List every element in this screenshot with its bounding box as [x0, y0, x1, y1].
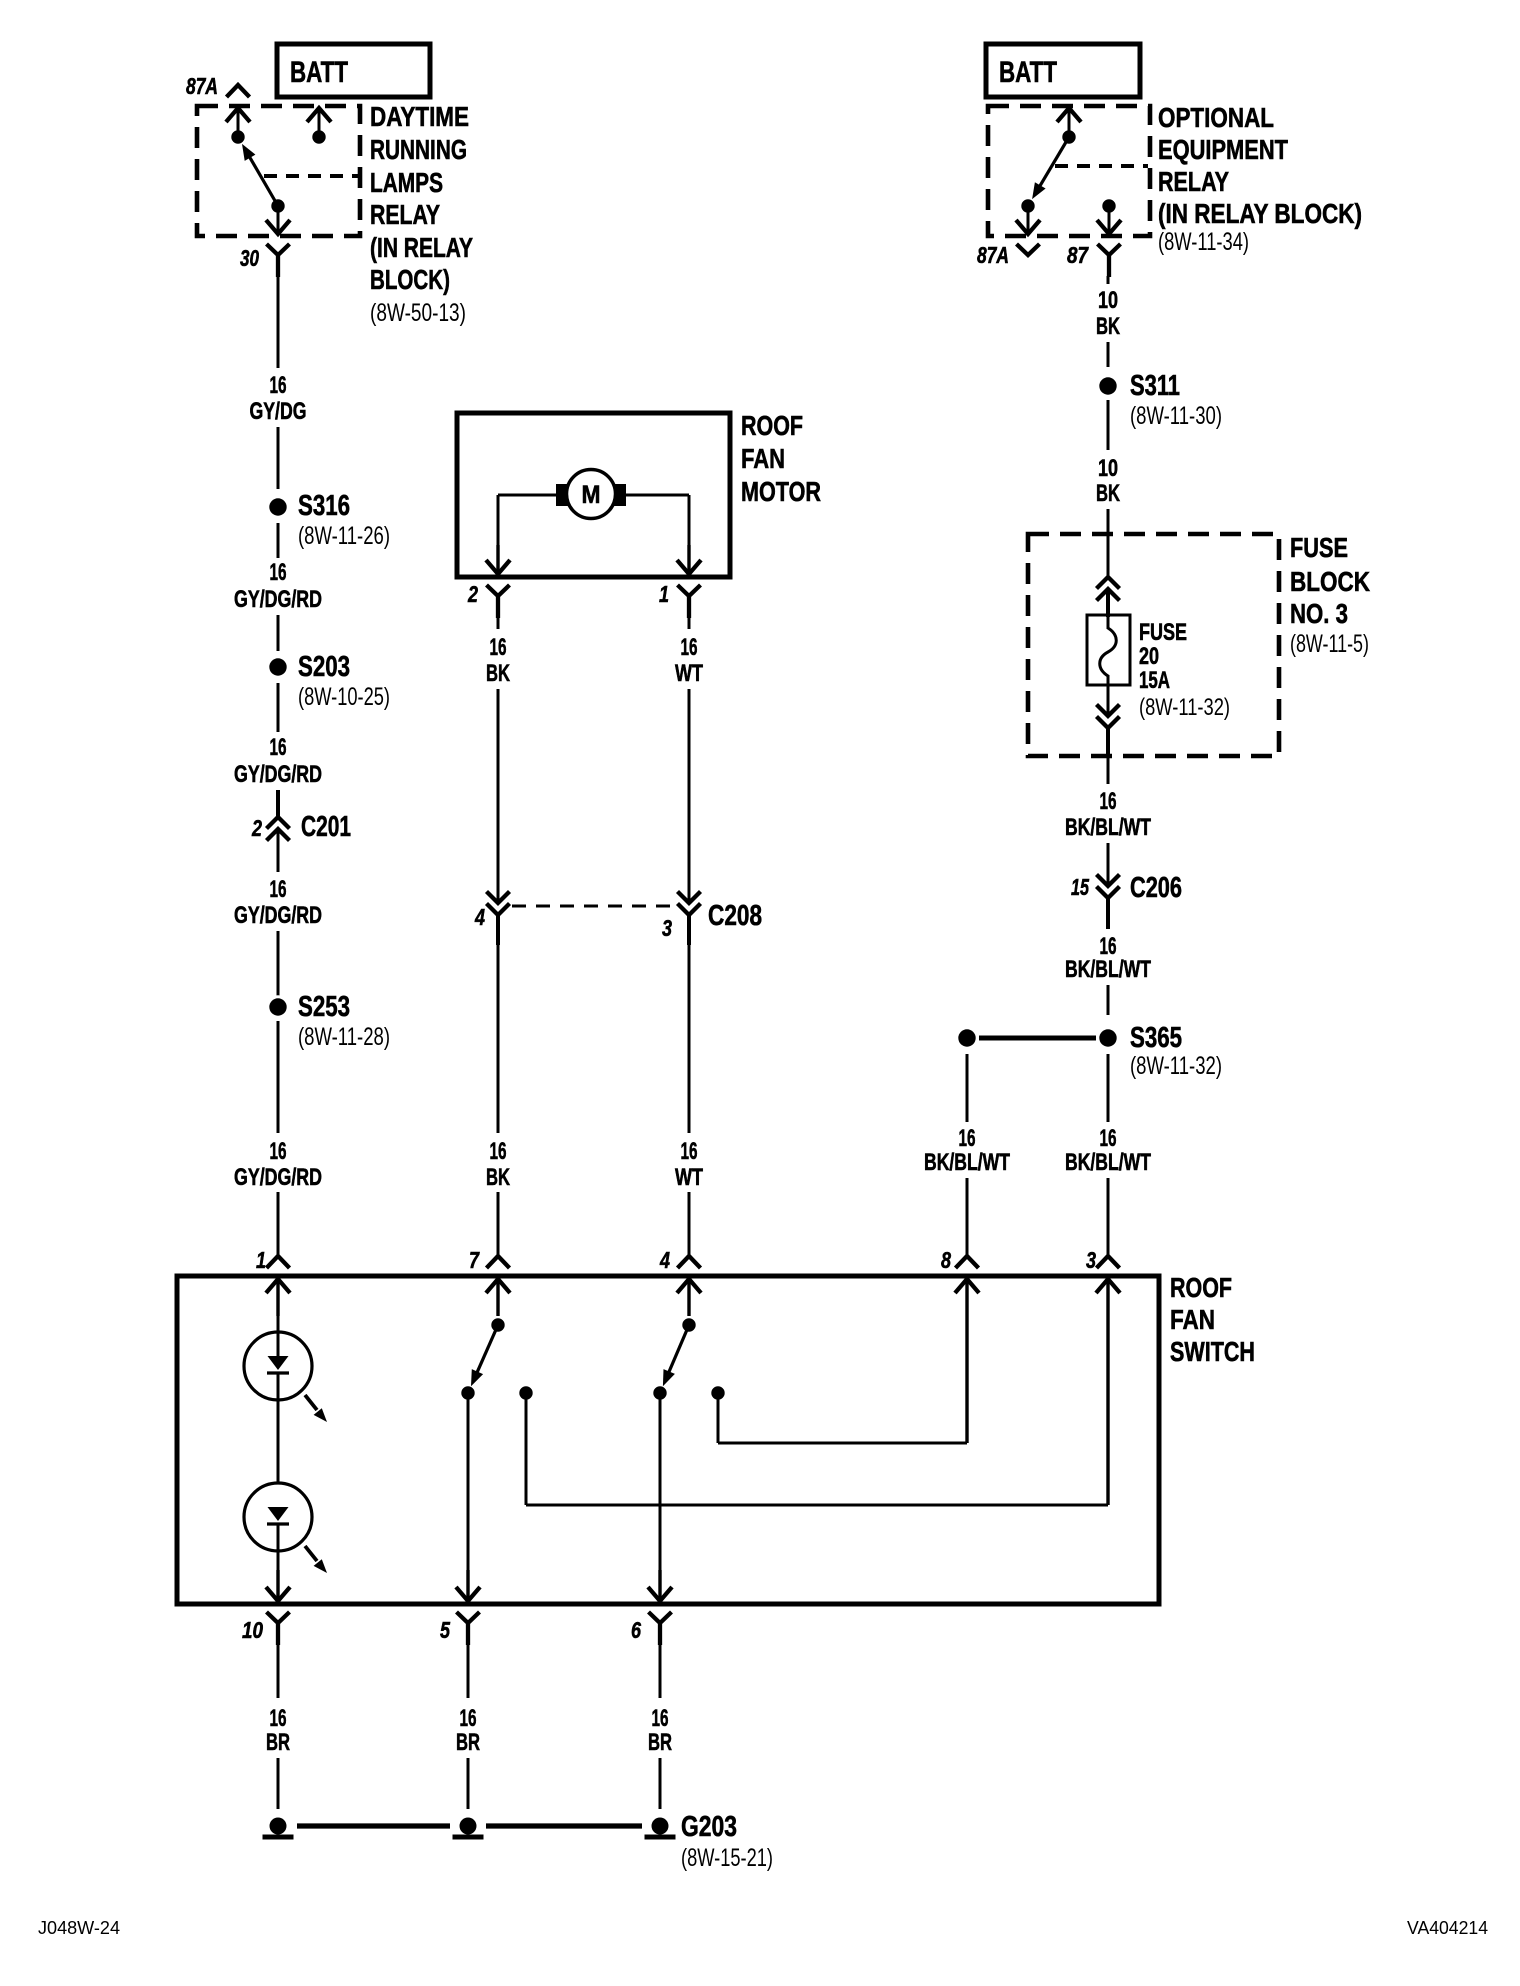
- svg-text:3: 3: [1086, 1247, 1096, 1273]
- wire out of fuse block (16 BK/BL/WT): [1106, 728, 1110, 758]
- svg-text:C208: C208: [708, 900, 762, 932]
- svg-text:(8W-15-21): (8W-15-21): [681, 1844, 773, 1872]
- wire: [276, 790, 280, 817]
- svg-text:OPTIONAL: OPTIONAL: [1158, 102, 1274, 133]
- wire: throw contact down to pin 5: [467, 1393, 470, 1570]
- svg-text:4: 4: [474, 904, 485, 930]
- pin 87A terminal arrow: [1027, 206, 1030, 232]
- relay fixed contact (battery side): [312, 130, 325, 143]
- wire: [1107, 685, 1110, 716]
- wire: pin 1 to illumination LEDs: [276, 1279, 279, 1316]
- pin 7 connector half (above switch box): [487, 1256, 510, 1268]
- svg-text:15: 15: [1071, 874, 1090, 900]
- pin 6 terminal arrow (switch bottom): [648, 1587, 672, 1601]
- svg-text:DAYTIME: DAYTIME: [370, 101, 469, 132]
- svg-text:1: 1: [256, 1247, 266, 1273]
- svg-text:3: 3: [662, 915, 672, 941]
- connector (double chevron) into fuse block: [1097, 577, 1120, 589]
- relay fixed contact 87A: [231, 130, 244, 143]
- svg-text:16: 16: [270, 1705, 287, 1732]
- pin 4 terminal arrow: [677, 1279, 701, 1293]
- wire (left branch of S365, 16 BK/BL/WT): [966, 1054, 969, 1122]
- wire: contact down and across to pin 3: [525, 1393, 528, 1505]
- wire: [277, 615, 280, 651]
- splice S316: [266, 495, 289, 518]
- svg-text:16: 16: [270, 876, 287, 903]
- svg-text:M: M: [582, 481, 601, 509]
- switch pole A blade with arrowhead: [474, 1325, 498, 1380]
- connector C208 pin 4 (double chevron): [487, 892, 510, 904]
- svg-text:BLOCK): BLOCK): [370, 264, 450, 295]
- connector half below pin 1: [678, 585, 701, 618]
- node BATT (left battery feed): [277, 44, 430, 97]
- svg-text:MOTOR: MOTOR: [741, 476, 821, 507]
- wire: [277, 1192, 280, 1256]
- pin 87A terminal arrow: [226, 108, 250, 122]
- svg-text:GY/DG/RD: GY/DG/RD: [234, 761, 322, 788]
- svg-text:(8W-11-32): (8W-11-32): [1139, 694, 1230, 721]
- svg-text:S316: S316: [298, 490, 350, 522]
- connector (double chevron) out of fuse block: [1097, 705, 1120, 717]
- svg-text:J048W-24: J048W-24: [38, 1918, 120, 1938]
- splice S365 (tie bar to left branch): [979, 1036, 1096, 1041]
- svg-text:BK/BL/WT: BK/BL/WT: [924, 1149, 1010, 1176]
- pin 5 terminal arrow (switch bottom): [456, 1587, 480, 1601]
- relay common contact: [1062, 130, 1075, 143]
- connector half below pin 30: [267, 244, 290, 277]
- wire: relay pin 87 down (10 BK): [1107, 276, 1110, 284]
- svg-text:16: 16: [1100, 1125, 1117, 1152]
- svg-text:ROOF: ROOF: [1170, 1272, 1232, 1303]
- svg-text:FAN: FAN: [741, 443, 785, 474]
- wire: [277, 829, 280, 872]
- relay battery-side terminal arrow: [307, 108, 331, 122]
- svg-text:(8W-10-25): (8W-10-25): [298, 683, 390, 711]
- svg-text:4: 4: [659, 1247, 670, 1273]
- connector C208 pin 3 (double chevron): [678, 892, 701, 904]
- svg-text:LAMPS: LAMPS: [370, 167, 443, 198]
- relay contact 87: [1102, 199, 1115, 212]
- switch ROOF FAN SWITCH (box): [177, 1276, 1159, 1604]
- pin 87 terminal arrow: [1108, 206, 1111, 232]
- switch pole B: contact from pin 4: [687, 1279, 690, 1316]
- svg-text:BK/BL/WT: BK/BL/WT: [1065, 1149, 1151, 1176]
- svg-text:BLOCK: BLOCK: [1290, 566, 1370, 597]
- pin 10 connector half (below switch box): [267, 1612, 290, 1645]
- relay battery-side terminal arrow: [1057, 108, 1081, 122]
- svg-text:FUSE: FUSE: [1290, 532, 1348, 563]
- wire: [277, 1021, 280, 1133]
- wire: pin 1 down (16 WT): [688, 617, 691, 629]
- switch pole B throw contact (to pin 6): [653, 1386, 666, 1399]
- wire: motor right lead: [626, 494, 689, 497]
- wire: relay pin 30 down (16 GY/DG): [277, 276, 280, 368]
- svg-text:RUNNING: RUNNING: [370, 134, 467, 165]
- pin 5 connector half (below switch box): [457, 1612, 480, 1645]
- svg-text:S203: S203: [298, 651, 350, 683]
- wire: [1107, 400, 1110, 450]
- svg-text:S311: S311: [1130, 370, 1180, 402]
- svg-text:C201: C201: [301, 811, 351, 843]
- svg-text:16: 16: [490, 634, 507, 661]
- wire: [1107, 843, 1110, 886]
- splice S253: [266, 995, 289, 1018]
- svg-text:5: 5: [440, 1617, 451, 1643]
- wire: [1106, 589, 1110, 617]
- connector C201 (pin 2): [267, 817, 290, 829]
- svg-text:(8W-11-28): (8W-11-28): [298, 1023, 390, 1051]
- svg-text:GY/DG/RD: GY/DG/RD: [234, 1164, 322, 1191]
- svg-text:16: 16: [681, 634, 698, 661]
- svg-text:BK: BK: [486, 1164, 510, 1191]
- svg-text:BK/BL/WT: BK/BL/WT: [1065, 956, 1151, 983]
- wire: pin 6 to ground (16 BR): [659, 1644, 662, 1698]
- wire: [277, 683, 280, 732]
- svg-text:WT: WT: [675, 1164, 703, 1191]
- svg-text:WT: WT: [675, 660, 703, 687]
- connector C206 (pin 15): [1097, 875, 1120, 887]
- wire into fuse block: [1107, 509, 1110, 577]
- fuse block FUSE BLOCK NO. 3 (dashed box): [1028, 534, 1279, 756]
- svg-text:16: 16: [1100, 788, 1117, 815]
- pin 2 terminal arrow: [486, 560, 510, 574]
- wire: [966, 1178, 969, 1256]
- svg-text:16: 16: [270, 372, 287, 399]
- svg-text:BK: BK: [486, 660, 510, 687]
- pin 1 connector half (above switch box): [267, 1256, 290, 1268]
- pin 7 terminal arrow: [486, 1279, 510, 1293]
- svg-text:(8W-50-13): (8W-50-13): [370, 299, 466, 327]
- svg-text:6: 6: [631, 1617, 641, 1643]
- pin 30 terminal arrow: [277, 206, 280, 232]
- svg-text:FUSE: FUSE: [1139, 619, 1187, 646]
- svg-text:87: 87: [1067, 242, 1089, 268]
- svg-text:(8W-11-26): (8W-11-26): [298, 522, 390, 550]
- svg-text:RELAY: RELAY: [1158, 166, 1229, 197]
- relay coil bar (dashed): [1055, 164, 1148, 168]
- svg-text:16: 16: [681, 1138, 698, 1165]
- relay DAYTIME RUNNING LAMPS RELAY (dashed box, in relay block): [197, 106, 360, 236]
- wire: [1107, 1178, 1110, 1256]
- wire: pin 2 down (16 BK): [497, 617, 500, 629]
- switch pole A alternate throw contact (to pin 3): [519, 1386, 532, 1399]
- svg-text:GY/DG/RD: GY/DG/RD: [234, 586, 322, 613]
- svg-text:10: 10: [242, 1617, 263, 1643]
- svg-text:BATT: BATT: [290, 56, 348, 89]
- wire: pin 5 to ground (16 BR): [467, 1644, 470, 1698]
- switch pole A: contact from pin 7: [496, 1279, 499, 1316]
- svg-text:(8W-11-32): (8W-11-32): [1130, 1052, 1222, 1080]
- wire: throw contact down to pin 6: [659, 1393, 662, 1570]
- fuse FUSE 20 15A: [1087, 615, 1130, 685]
- wire: [277, 931, 280, 996]
- relay OPTIONAL EQUIPMENT RELAY (dashed box, in relay block): [988, 106, 1150, 236]
- pin 6 connector half (below switch box): [649, 1612, 672, 1645]
- svg-text:87A: 87A: [977, 242, 1009, 268]
- wire: [1107, 342, 1110, 367]
- wire: [277, 427, 280, 489]
- wire: [1107, 985, 1110, 1015]
- relay movable blade with arrowhead: [1035, 137, 1069, 194]
- wire: contact down and across to pin 8: [717, 1393, 720, 1443]
- svg-text:S253: S253: [298, 991, 350, 1023]
- connector C208 mating line (dashed): [512, 905, 674, 908]
- pin 8 connector half (above switch box): [956, 1256, 979, 1268]
- svg-text:8: 8: [941, 1247, 951, 1273]
- svg-text:RELAY: RELAY: [370, 199, 440, 230]
- svg-text:BR: BR: [456, 1729, 480, 1756]
- svg-text:S365: S365: [1130, 1022, 1182, 1054]
- svg-text:GY/DG: GY/DG: [250, 398, 307, 425]
- svg-text:BK: BK: [1096, 480, 1120, 507]
- ground connection dot and bar: [267, 1815, 290, 1838]
- svg-text:16: 16: [959, 1125, 976, 1152]
- relay movable blade with arrowhead: [245, 149, 278, 206]
- svg-text:(8W-11-5): (8W-11-5): [1290, 630, 1369, 658]
- wire: motor left lead: [498, 494, 556, 497]
- LED 1 emission arrow: [305, 1395, 317, 1410]
- svg-text:20: 20: [1139, 643, 1159, 670]
- wire: [1106, 898, 1110, 929]
- svg-text:16: 16: [270, 1138, 287, 1165]
- svg-text:87A: 87A: [186, 73, 218, 99]
- motor ROOF FAN MOTOR (box): [457, 413, 730, 577]
- svg-text:(8W-11-34): (8W-11-34): [1158, 228, 1249, 256]
- svg-text:BK/BL/WT: BK/BL/WT: [1065, 814, 1151, 841]
- svg-text:2: 2: [467, 581, 478, 607]
- pin 1 terminal arrow: [677, 560, 701, 574]
- svg-text:15A: 15A: [1139, 667, 1170, 694]
- relay coil bar (dashed): [264, 174, 358, 178]
- connector half above pin 87A: [227, 85, 250, 97]
- pin 10 terminal arrow (switch bottom): [266, 1587, 290, 1601]
- relay contact 87A: [1021, 199, 1034, 212]
- svg-text:1: 1: [659, 581, 669, 607]
- connector half below pin 87A: [1017, 244, 1040, 255]
- svg-text:BR: BR: [266, 1729, 290, 1756]
- LED 2 emission arrow: [305, 1546, 317, 1561]
- svg-text:(8W-11-30): (8W-11-30): [1130, 402, 1222, 430]
- svg-text:FAN: FAN: [1170, 1304, 1215, 1335]
- splice S311: [1096, 374, 1119, 397]
- ground connection dot and bar: [457, 1815, 480, 1838]
- svg-text:30: 30: [240, 245, 259, 271]
- svg-text:16: 16: [652, 1705, 669, 1732]
- pin 8 terminal arrow: [955, 1279, 979, 1293]
- ground connection dot and bar: [649, 1815, 672, 1838]
- svg-text:SWITCH: SWITCH: [1170, 1336, 1255, 1367]
- LED illumination lamp 2: [244, 1483, 312, 1551]
- ground bus wire: [297, 1823, 450, 1828]
- svg-text:C206: C206: [1130, 872, 1182, 904]
- svg-text:16: 16: [460, 1705, 477, 1732]
- pin 3 terminal arrow: [1096, 1279, 1120, 1293]
- wire: pin 3 of C208 down (16 WT): [687, 915, 691, 945]
- wire: pin 10 to ground (16 BR): [277, 1644, 280, 1698]
- svg-text:7: 7: [469, 1247, 480, 1273]
- svg-text:2: 2: [251, 815, 262, 841]
- svg-text:VA404214: VA404214: [1407, 1918, 1488, 1938]
- relay common contact (pin 30): [271, 199, 284, 212]
- pin 3 connector half (above switch box): [1097, 1256, 1120, 1268]
- svg-text:16: 16: [270, 734, 287, 761]
- switch pole A throw contact (to pin 5): [461, 1386, 474, 1399]
- node BATT (right battery feed): [986, 44, 1140, 97]
- svg-text:(IN RELAY: (IN RELAY: [370, 232, 473, 263]
- wire (right branch, 16 BK/BL/WT): [1107, 1054, 1110, 1122]
- connector half below pin 2: [487, 585, 510, 618]
- svg-text:BR: BR: [648, 1729, 672, 1756]
- splice S203: [266, 655, 289, 678]
- svg-text:G203: G203: [681, 1811, 737, 1843]
- pin 4 connector half (above switch box): [678, 1256, 701, 1268]
- svg-text:EQUIPMENT: EQUIPMENT: [1158, 134, 1288, 165]
- svg-text:16: 16: [270, 559, 287, 586]
- svg-text:NO. 3: NO. 3: [1290, 598, 1348, 629]
- svg-text:16: 16: [490, 1138, 507, 1165]
- svg-text:10: 10: [1098, 287, 1118, 314]
- switch pole B blade with arrowhead: [665, 1325, 689, 1380]
- pin 1 terminal arrow: [266, 1279, 290, 1293]
- svg-text:BATT: BATT: [999, 56, 1057, 89]
- svg-text:GY/DG/RD: GY/DG/RD: [234, 902, 322, 929]
- svg-text:ROOF: ROOF: [741, 410, 803, 441]
- svg-text:(IN RELAY BLOCK): (IN RELAY BLOCK): [1158, 198, 1362, 229]
- wire: pin 4 of C208 down (16 BK): [496, 915, 500, 945]
- switch pole B alternate throw contact (to pin 8): [711, 1386, 724, 1399]
- motor M symbol: [567, 470, 616, 519]
- svg-text:10: 10: [1098, 455, 1118, 482]
- connector half below pin 87: [1098, 244, 1121, 277]
- wire: [277, 523, 280, 558]
- LED illumination lamp 1: [244, 1332, 312, 1400]
- svg-text:BK: BK: [1096, 313, 1120, 340]
